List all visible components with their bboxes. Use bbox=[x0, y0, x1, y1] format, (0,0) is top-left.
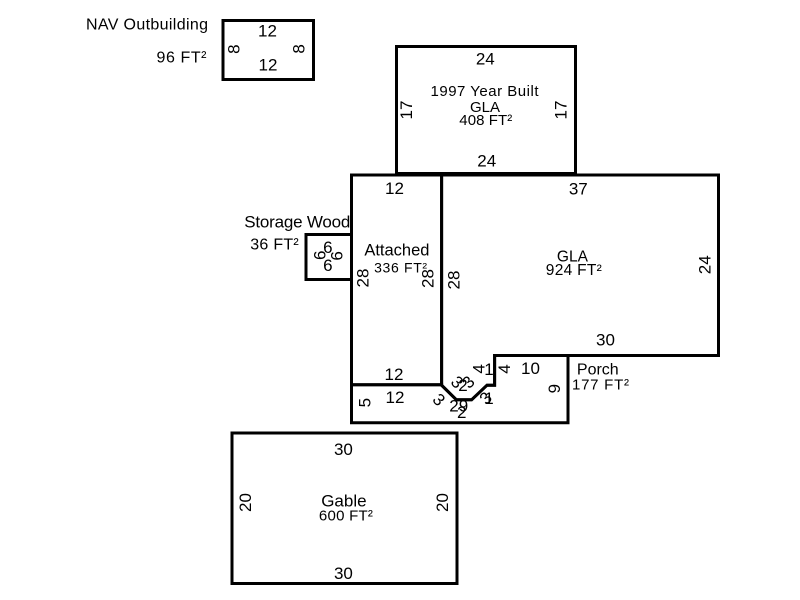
svg-text:17: 17 bbox=[397, 101, 416, 120]
svg-text:17: 17 bbox=[552, 101, 571, 120]
svg-text:4: 4 bbox=[495, 364, 514, 373]
svg-text:24: 24 bbox=[477, 152, 496, 171]
svg-text:9: 9 bbox=[545, 384, 564, 393]
svg-text:8: 8 bbox=[289, 44, 308, 53]
1997 addition rectangle (24x17) bbox=[397, 47, 576, 174]
svg-text:600 FT²: 600 FT² bbox=[319, 507, 373, 524]
svg-text:30: 30 bbox=[334, 564, 353, 583]
svg-text:37: 37 bbox=[569, 179, 588, 198]
svg-text:30: 30 bbox=[596, 331, 615, 350]
GLA main polygon (37x24 with notch) bbox=[442, 175, 719, 400]
svg-text:36 FT²: 36 FT² bbox=[250, 236, 299, 253]
svg-text:12: 12 bbox=[385, 365, 404, 384]
svg-text:24: 24 bbox=[476, 50, 495, 69]
svg-text:12: 12 bbox=[385, 179, 404, 198]
svg-text:NAV Outbuilding: NAV Outbuilding bbox=[86, 17, 208, 34]
svg-text:8: 8 bbox=[225, 44, 244, 53]
svg-text:6: 6 bbox=[310, 251, 329, 260]
attached garage rectangle (12x28) bbox=[352, 175, 442, 385]
svg-text:12: 12 bbox=[386, 388, 405, 407]
svg-text:10: 10 bbox=[521, 359, 540, 378]
svg-text:28: 28 bbox=[353, 269, 372, 288]
svg-text:96 FT²: 96 FT² bbox=[157, 50, 208, 67]
porch polygon (177 sq ft) bbox=[352, 356, 569, 423]
svg-text:28: 28 bbox=[418, 269, 437, 288]
svg-text:30: 30 bbox=[334, 440, 353, 459]
svg-text:177 FT²: 177 FT² bbox=[572, 377, 629, 394]
svg-text:Storage Wood: Storage Wood bbox=[244, 212, 350, 231]
svg-text:924 FT²: 924 FT² bbox=[546, 262, 602, 279]
svg-text:1997 Year Built: 1997 Year Built bbox=[431, 83, 540, 100]
storage wood box (6x6) bbox=[306, 235, 352, 280]
svg-text:5: 5 bbox=[355, 398, 374, 407]
svg-text:12: 12 bbox=[258, 22, 277, 41]
svg-text:6: 6 bbox=[328, 251, 347, 260]
svg-text:1: 1 bbox=[484, 389, 493, 408]
svg-text:20: 20 bbox=[433, 493, 452, 512]
svg-text:1: 1 bbox=[484, 360, 493, 379]
svg-text:20: 20 bbox=[236, 493, 255, 512]
svg-text:Attached: Attached bbox=[364, 242, 429, 260]
svg-text:24: 24 bbox=[695, 255, 714, 274]
gable rectangle (30x20) bbox=[232, 433, 457, 584]
svg-text:408 FT²: 408 FT² bbox=[459, 112, 512, 129]
svg-text:28: 28 bbox=[444, 271, 463, 290]
svg-text:2: 2 bbox=[457, 403, 466, 422]
svg-text:12: 12 bbox=[259, 55, 278, 74]
outbuilding rectangle (NAV Outbuilding 12x8) bbox=[223, 21, 314, 80]
